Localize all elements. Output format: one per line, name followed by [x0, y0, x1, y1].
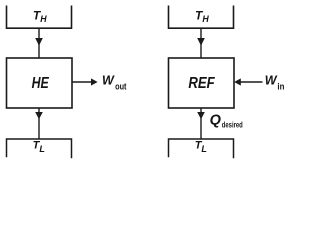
refrigerator box REF — [169, 58, 235, 108]
svg-text:Q: Q — [210, 113, 222, 129]
arrowhead W_out — [91, 78, 98, 85]
wire: heat rejection from HE — [38, 108, 40, 139]
arrowhead to cold reservoir (left) — [35, 112, 43, 119]
svg-text:HE: HE — [32, 75, 50, 92]
svg-text:in: in — [277, 81, 284, 91]
svg-text:REF: REF — [188, 75, 215, 92]
arrowhead into REF — [197, 38, 205, 46]
wire: work input — [241, 81, 263, 83]
arrowhead into HE — [35, 38, 43, 46]
wire: work output — [72, 81, 92, 83]
arrowhead W_in (points into box) — [234, 78, 241, 85]
heat engine box HE — [7, 58, 73, 108]
wire: heat input to HE — [38, 28, 40, 58]
arrowhead Q_desired — [197, 112, 205, 119]
hot reservoir (right, open-top U) — [169, 6, 234, 29]
hot reservoir (left, open-top U) — [7, 6, 72, 29]
svg-text:desired: desired — [222, 120, 243, 130]
cold reservoir (left, open-bottom) — [7, 139, 72, 158]
svg-text:W: W — [265, 74, 278, 88]
svg-text:out: out — [115, 81, 126, 91]
cold reservoir (right, open-bottom) — [169, 139, 234, 158]
wire: heat input to REF — [200, 28, 202, 58]
wire: desired heat removal — [200, 108, 202, 139]
svg-text:W: W — [102, 74, 115, 88]
